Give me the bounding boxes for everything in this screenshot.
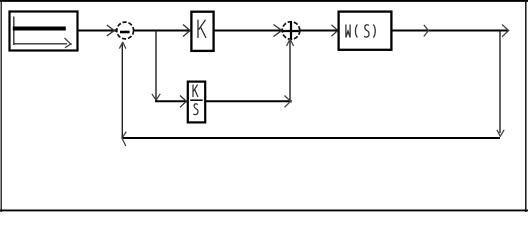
wire source to summer 1 xyxy=(78,30,117,32)
label ) xyxy=(373,25,375,38)
down arrowhead at right corner xyxy=(497,130,504,137)
up arrowhead into summer 2 xyxy=(287,39,294,46)
feedback wire bottom xyxy=(123,137,500,139)
wire block K to summer 2 xyxy=(214,30,282,32)
arrowhead into block K xyxy=(183,25,192,37)
label K (numerator) xyxy=(193,85,198,98)
step source axis arrowhead xyxy=(65,38,72,48)
arrowhead into block K/S xyxy=(180,96,188,108)
feedback wire up at left xyxy=(121,43,123,139)
label S (denominator) xyxy=(193,104,198,115)
label K xyxy=(198,20,206,38)
block W(S) xyxy=(339,12,392,50)
wire branch to block K/S xyxy=(155,100,186,102)
outer frame xyxy=(0,0,528,2)
branch node after summer 1 xyxy=(155,31,157,99)
fraction bar xyxy=(190,99,202,101)
up arrowhead into summer 1 xyxy=(119,42,126,49)
label S xyxy=(364,25,369,37)
label W xyxy=(346,25,350,38)
plus sign xyxy=(283,22,299,40)
feedback wire down at right xyxy=(499,31,501,133)
wire summer 2 to block W(S) xyxy=(300,30,338,32)
arrowhead into block W(S) xyxy=(332,25,339,36)
block K/S xyxy=(188,82,205,123)
left arrowhead at bottom-left corner xyxy=(122,132,127,146)
arrowhead into summer 2 xyxy=(274,25,284,37)
summing junction 2 (plus) xyxy=(282,22,300,40)
wire block K/S to under summer 2 xyxy=(205,100,290,102)
output wire from W(S) xyxy=(392,30,508,32)
minus sign xyxy=(120,31,130,34)
mid output arrowhead xyxy=(424,25,429,37)
wire up into summer 2 xyxy=(289,40,291,101)
arrowhead at corner under summer 2 xyxy=(285,96,292,108)
wire summer 1 to block K xyxy=(134,30,190,32)
summing junction 1 (minus) xyxy=(117,22,134,39)
arrowhead into summer 1 xyxy=(107,25,116,36)
output end arrowhead xyxy=(502,25,509,37)
block K xyxy=(191,12,213,51)
label ( xyxy=(355,25,357,38)
step input source block xyxy=(10,12,78,51)
down arrowhead at branch corner xyxy=(152,94,160,101)
